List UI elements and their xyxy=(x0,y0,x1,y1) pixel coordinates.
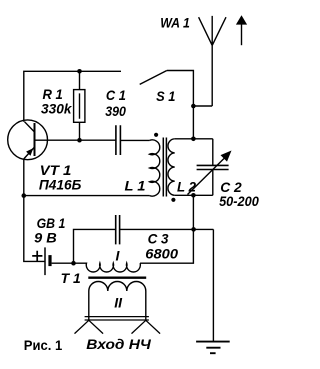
battery GB1 short plate xyxy=(48,255,51,266)
node L1 polarity dot xyxy=(154,133,158,137)
transistor VT1 emitter arrow (PNP) xyxy=(26,148,33,156)
capacitor C2 variable arrow xyxy=(188,158,226,195)
core of L1/L2 xyxy=(163,138,166,197)
svg-text:Вход НЧ: Вход НЧ xyxy=(86,336,152,352)
ground symbol xyxy=(196,342,230,354)
capacitor C1 plates xyxy=(116,125,121,155)
wire top rail (collector to switch) xyxy=(24,71,121,121)
wire C1 to L1 xyxy=(120,139,149,141)
connector crow feet left xyxy=(75,320,104,333)
svg-text:50-200: 50-200 xyxy=(219,193,259,209)
transistor VT1 circle xyxy=(8,120,48,160)
node L2 polarity dot xyxy=(171,198,175,202)
node R1 bottom junction xyxy=(77,138,82,143)
connector double line xyxy=(85,317,149,320)
capacitor C2 bottom lead xyxy=(212,170,214,196)
antenna WA1 symbol xyxy=(199,16,226,106)
transistor VT1 collector diagonal xyxy=(25,122,35,132)
capacitor C2 top lead xyxy=(212,139,214,166)
svg-text:П416Б: П416Б xyxy=(39,176,82,192)
node C3 junction xyxy=(191,227,196,232)
inductor L2 coil xyxy=(168,139,175,196)
node L2 top junction xyxy=(191,137,196,142)
transistor VT1 emitter diagonal xyxy=(24,148,34,159)
transformer T1 core xyxy=(88,277,146,279)
svg-text:390: 390 xyxy=(105,103,126,119)
wire S1 to L2 top xyxy=(167,71,194,139)
radiation arrow up xyxy=(236,15,247,45)
node emitter junction xyxy=(22,193,27,198)
node battery junction xyxy=(71,261,76,266)
svg-text:WA 1: WA 1 xyxy=(160,15,190,31)
wire junction up to C3 xyxy=(74,229,116,263)
node L2 bottom junction xyxy=(191,193,196,198)
svg-text:C 1: C 1 xyxy=(106,87,126,103)
svg-text:C 3: C 3 xyxy=(148,231,169,247)
svg-text:330k: 330k xyxy=(41,100,73,116)
svg-text:Т 1: Т 1 xyxy=(61,270,81,286)
connector crow feet right xyxy=(132,320,161,333)
svg-text:L 2: L 2 xyxy=(177,179,196,195)
svg-text:Рис. 1: Рис. 1 xyxy=(24,337,63,353)
svg-text:L 1: L 1 xyxy=(125,178,146,194)
transistor VT1 base bar xyxy=(34,123,36,156)
wire emitter down left rail to battery xyxy=(24,159,45,262)
capacitor C2 plates xyxy=(197,165,229,169)
svg-text:II: II xyxy=(114,295,123,311)
node R1 top junction xyxy=(77,69,82,74)
svg-text:GB 1: GB 1 xyxy=(37,215,66,231)
transformer T1 winding II xyxy=(89,282,146,321)
transformer T1 winding I xyxy=(74,263,141,272)
wire L2 top to C2 xyxy=(175,138,213,140)
switch S1 lever xyxy=(140,71,167,85)
wire battery to T1 xyxy=(52,262,74,264)
capacitor C3 plates xyxy=(116,215,120,244)
resistor R1 lead xyxy=(79,71,81,140)
inductor L1 coil xyxy=(150,140,160,196)
battery GB1 long plate xyxy=(44,247,46,275)
wire antenna to S1 junction xyxy=(193,105,212,107)
wire base to C1 xyxy=(35,139,116,141)
wire L2 bottom to C2 xyxy=(175,194,213,196)
resistor R1 body xyxy=(74,90,85,123)
node antenna junction dot xyxy=(191,104,196,109)
wire C3 to ground branch xyxy=(120,228,214,230)
wire C3 junction down to T1 winding I xyxy=(140,229,193,263)
svg-text:S 1: S 1 xyxy=(156,88,175,104)
wire to ground xyxy=(212,229,214,341)
battery GB1 plus sign xyxy=(32,251,42,262)
svg-text:9 В: 9 В xyxy=(34,229,57,245)
svg-text:6800: 6800 xyxy=(145,245,178,261)
wire L2 bottom to C3 junction xyxy=(192,195,194,229)
wire mid rail to L1 bottom xyxy=(24,195,150,197)
